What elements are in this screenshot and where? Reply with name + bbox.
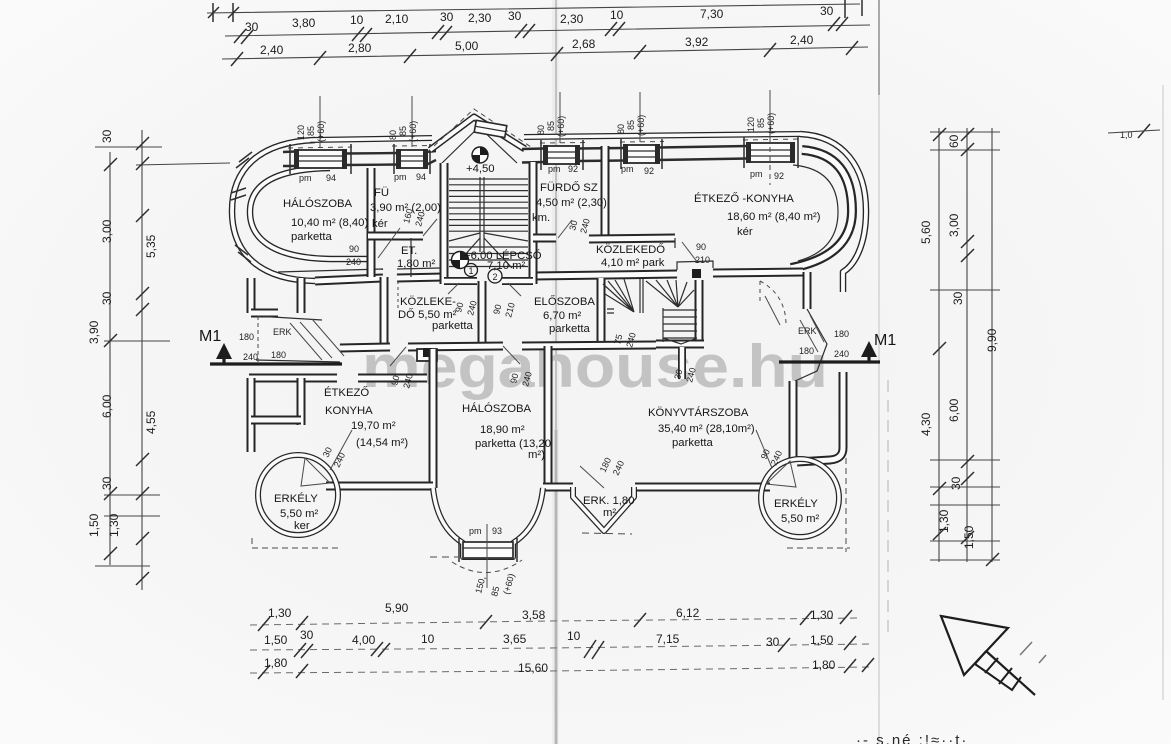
svg-text:30: 30: [949, 476, 963, 490]
svg-text:18,90 m²: 18,90 m²: [480, 424, 525, 436]
top wall outer face left: [310, 138, 432, 140]
stair right wall: [695, 280, 704, 348]
window W5 pm92: [748, 143, 794, 162]
svg-text:30: 30: [440, 10, 454, 24]
svg-text:+4,50: +4,50: [466, 163, 495, 175]
right fold line: [878, 0, 880, 744]
svg-text:parketta: parketta: [672, 437, 714, 449]
svg-text:M1: M1: [199, 328, 221, 345]
svg-text:2,40: 2,40: [260, 43, 284, 57]
door dimension labels: [321, 207, 784, 597]
svg-text:KÖZLEKE-: KÖZLEKE-: [400, 296, 456, 308]
svg-text:180: 180: [271, 350, 286, 360]
bottom edge cut text: [856, 732, 968, 744]
ET left thin wall: [410, 238, 412, 277]
svg-text:ELŐSZOBA: ELŐSZOBA: [534, 294, 595, 308]
partition below stairs: [678, 347, 686, 379]
svg-text:94: 94: [326, 173, 336, 183]
corridor 5,50 left wall: [380, 277, 389, 348]
svg-text:KONYHA: KONYHA: [325, 405, 373, 417]
svg-text:DŐ 5,50 m²: DŐ 5,50 m²: [398, 307, 457, 321]
stair divider: [639, 279, 641, 313]
svg-text:120: 120: [746, 117, 756, 132]
svg-text:1,30: 1,30: [107, 513, 121, 537]
svg-text:35,40 m² (28,10m²): 35,40 m² (28,10m²): [658, 423, 755, 435]
svg-text:10,40 m² (8,40): 10,40 m² (8,40): [291, 217, 368, 229]
bay roof dashed: [434, 109, 531, 147]
svg-text:3,58: 3,58: [522, 608, 546, 622]
svg-text:80: 80: [536, 125, 546, 135]
stair door notch: [607, 309, 614, 313]
ERK pentagon: [573, 487, 634, 531]
svg-text:10: 10: [421, 632, 435, 646]
svg-text:85: 85: [756, 118, 766, 128]
svg-text:18,60 m² (8,40 m²): 18,60 m² (8,40 m²): [727, 211, 821, 223]
M1 section line right: [779, 360, 880, 363]
svg-text:KÖNYVTÁRSZOBA: KÖNYVTÁRSZOBA: [648, 406, 749, 419]
svg-text:30: 30: [100, 129, 114, 143]
svg-text:1,50: 1,50: [810, 633, 834, 647]
chunk W4-W5: [658, 146, 748, 160]
ERK balcony right thin outline: [795, 309, 827, 381]
svg-text:pm: pm: [548, 164, 561, 174]
left room cap outer face: [232, 140, 315, 281]
top wall band left: chunk A: [283, 152, 295, 167]
svg-text:2,10: 2,10: [385, 12, 409, 26]
wall HALO/KONYVTAR lower: [544, 346, 553, 487]
svg-text:7,30: 7,30: [700, 7, 724, 21]
svg-text:4,10 m² park: 4,10 m² park: [601, 257, 665, 269]
bay apex window: [474, 120, 507, 137]
svg-text:92: 92: [774, 171, 784, 181]
svg-text:80: 80: [388, 130, 398, 140]
center bottom bay: [433, 488, 543, 557]
svg-text:240: 240: [243, 352, 258, 362]
svg-text:180: 180: [834, 329, 849, 339]
lower stair winder rays left: [603, 279, 634, 312]
svg-text:5,60: 5,60: [919, 220, 933, 244]
svg-text:ÉTKEZŐ: ÉTKEZŐ: [324, 385, 369, 399]
svg-text:1,50: 1,50: [962, 525, 976, 549]
svg-text:2,68: 2,68: [572, 37, 596, 51]
svg-text:2: 2: [493, 272, 498, 282]
svg-text:19,70 m²: 19,70 m²: [351, 420, 396, 432]
shaft bottom walls: [444, 277, 477, 285]
svg-text:3,92: 3,92: [685, 35, 709, 49]
svg-text:85: 85: [546, 121, 556, 131]
svg-text:2,80: 2,80: [348, 41, 372, 55]
top dim line A: [207, 4, 860, 13]
svg-text:ÉTKEZŐ -KONYHA: ÉTKEZŐ -KONYHA: [694, 191, 794, 205]
svg-text:ERK. 1,80: ERK. 1,80: [583, 495, 635, 507]
stair shaft walls: [440, 163, 449, 284]
svg-text:1,80 m²: 1,80 m²: [397, 258, 436, 270]
door leaves upper band: [378, 219, 698, 296]
svg-text:180: 180: [799, 346, 814, 356]
window W3 pm92: [545, 146, 578, 164]
svg-text:5,50 m²: 5,50 m²: [280, 508, 319, 520]
svg-text:parketta: parketta: [549, 323, 591, 335]
flue square corridor: [692, 269, 701, 278]
svg-text:3,80: 3,80: [292, 16, 316, 30]
stair bay inner face: [441, 127, 517, 164]
svg-text:(+60): (+60): [636, 115, 646, 136]
svg-text:6,70 m²: 6,70 m²: [543, 310, 582, 322]
ETKEZO KONYHA top wall: [249, 374, 337, 383]
svg-text:pm: pm: [750, 169, 763, 179]
svg-text:15,60: 15,60: [518, 661, 548, 675]
chunk C before bay: [426, 151, 436, 165]
FU bottom wall: [368, 232, 423, 241]
svg-text:93: 93: [492, 526, 502, 536]
svg-text:m²): m²): [528, 449, 545, 461]
svg-text:9,90: 9,90: [985, 328, 999, 352]
svg-text:92: 92: [644, 166, 654, 176]
svg-text:ERKÉLY: ERKÉLY: [774, 497, 818, 510]
svg-text:pm: pm: [469, 526, 482, 536]
top dim line C: [222, 47, 868, 59]
M1 and ERK labels: [199, 326, 896, 362]
right flight treads: [663, 310, 697, 338]
wall between corridor and ELOSZOBA: [478, 281, 487, 345]
svg-text:30: 30: [100, 476, 114, 490]
window W2 pm94: [398, 150, 426, 168]
svg-text:1: 1: [469, 266, 474, 276]
KONYVTAR right walls: [789, 381, 798, 462]
svg-text:90: 90: [349, 244, 359, 254]
top dim line B: [225, 25, 870, 36]
svg-text:7,15: 7,15: [656, 632, 680, 646]
svg-text:85: 85: [626, 120, 636, 130]
svg-text:210: 210: [695, 255, 710, 265]
svg-text:(14,54 m²): (14,54 m²): [356, 437, 408, 449]
pm window labels: [299, 164, 784, 536]
svg-text:(+60): (+60): [766, 113, 776, 134]
svg-text:kér: kér: [372, 218, 388, 230]
svg-text:ERK: ERK: [273, 327, 292, 337]
svg-text:1,50: 1,50: [264, 633, 288, 647]
svg-text:94: 94: [416, 172, 426, 182]
svg-text:240: 240: [346, 257, 361, 267]
svg-text:5,50 m²: 5,50 m²: [781, 513, 820, 525]
svg-text:ERKÉLY: ERKÉLY: [274, 492, 318, 505]
circled 1: [465, 264, 478, 277]
left room cap inner face: [250, 168, 371, 259]
svg-text:60: 60: [947, 134, 961, 148]
svg-text:1,80: 1,80: [812, 658, 836, 672]
bay window pm93: [463, 542, 513, 558]
svg-text:km.: km.: [532, 212, 550, 224]
svg-text:85: 85: [306, 126, 316, 136]
svg-text:pm: pm: [621, 164, 634, 174]
svg-text:4,00: 4,00: [352, 633, 376, 647]
svg-text:2,30: 2,30: [560, 12, 584, 26]
right cap wall band: [791, 150, 852, 268]
svg-text:ker: ker: [294, 520, 310, 532]
ELOSZOBA right / stair left wall: [597, 278, 606, 347]
svg-text:HÁLÓSZOBA: HÁLÓSZOBA: [462, 402, 532, 415]
svg-text:(+60): (+60): [408, 121, 418, 142]
left outer walls lower: [247, 378, 256, 452]
svg-text:3,90: 3,90: [87, 320, 101, 344]
svg-text:240: 240: [834, 349, 849, 359]
window dimension leaders above top wall: [320, 90, 770, 147]
FURDO bottom wall / corridor top: [533, 234, 556, 243]
center fold line: [552, 0, 559, 744]
svg-text:ERK: ERK: [798, 326, 817, 336]
page right edge: [1162, 85, 1164, 700]
svg-text:m²: m²: [603, 507, 616, 519]
door leaves middle band: [390, 281, 520, 366]
svg-text:1,30: 1,30: [810, 608, 834, 622]
svg-text:3,00: 3,00: [100, 219, 114, 243]
svg-text:2,30: 2,30: [468, 11, 492, 25]
svg-text:4,30: 4,30: [919, 412, 933, 436]
svg-text:ET.: ET.: [401, 245, 417, 257]
svg-text:5,35: 5,35: [144, 234, 158, 258]
door gap dashes right of stairs: [760, 281, 786, 325]
balcony circle left: [258, 455, 338, 535]
bottom wall left part: [326, 482, 433, 491]
band chunk 524-545: [522, 149, 545, 163]
svg-text:FÜRDŐ SZ: FÜRDŐ SZ: [540, 180, 598, 194]
svg-text:92: 92: [568, 164, 578, 174]
pilaster below wall: [417, 349, 437, 361]
svg-text:6,00: 6,00: [100, 394, 114, 418]
svg-text:10: 10: [610, 8, 624, 22]
svg-text:7,10 m²: 7,10 m²: [487, 260, 526, 272]
cap hatch ticks: [231, 152, 252, 262]
svg-text:10: 10: [567, 629, 581, 643]
svg-text:2,40: 2,40: [790, 33, 814, 47]
svg-text:kér: kér: [737, 226, 753, 238]
ERK balcony left thin outline: [256, 316, 340, 362]
svg-text:3,00: 3,00: [947, 213, 961, 237]
right cap outer face: [800, 134, 866, 292]
stair bay pentagon outer: [430, 117, 525, 150]
svg-text:80: 80: [616, 124, 626, 134]
survey symbol lower +6,00: [452, 252, 469, 269]
bottom wall bay-pentagon: [543, 483, 573, 492]
window W4 pm92: [625, 145, 658, 163]
svg-text:5,90: 5,90: [385, 601, 409, 615]
svg-text:HÁLÓSZOBA: HÁLÓSZOBA: [283, 197, 353, 210]
chunk W3-W4: [578, 148, 625, 161]
svg-text:10: 10: [350, 13, 364, 27]
svg-text:30: 30: [300, 628, 314, 642]
svg-text:30: 30: [766, 635, 780, 649]
svg-text:5,00: 5,00: [455, 39, 479, 53]
right stub wall: [803, 272, 812, 309]
svg-text:6,12: 6,12: [676, 606, 700, 620]
right cap inner face: [793, 165, 838, 261]
svg-text:FÜ: FÜ: [374, 187, 389, 199]
svg-text:(+60): (+60): [316, 121, 326, 142]
svg-text:pm: pm: [394, 172, 407, 182]
svg-text:1,30: 1,30: [268, 606, 292, 620]
svg-text:30: 30: [820, 4, 834, 18]
svg-text:pm: pm: [299, 173, 312, 183]
svg-text:(+60): (+60): [556, 116, 566, 137]
svg-text:·- s.né :!≈··t·: ·- s.né :!≈··t·: [856, 732, 968, 744]
svg-text:3,65: 3,65: [503, 632, 527, 646]
survey symbol upper +4,50: [472, 147, 488, 163]
flue square: [423, 348, 432, 357]
svg-text:6,00: 6,00: [947, 398, 961, 422]
circled 2: [488, 269, 502, 283]
fan rays right: [646, 280, 694, 307]
FURDO right wall: [601, 146, 610, 238]
svg-text:180: 180: [239, 332, 254, 342]
balcony circle right: [761, 459, 839, 537]
svg-text:4,55: 4,55: [144, 410, 158, 434]
svg-text:30: 30: [100, 291, 114, 305]
svg-text:30: 30: [951, 291, 965, 305]
wall between HALOSZOBA and FU: [367, 168, 376, 277]
window W1 pm94: [295, 150, 346, 168]
svg-text:120: 120: [296, 125, 306, 140]
left wall stubs: [247, 278, 256, 313]
svg-text:4,50 m² (2,30): 4,50 m² (2,30): [536, 197, 607, 209]
svg-text:85: 85: [398, 126, 408, 136]
M1 section line left: [210, 362, 342, 365]
bottom wall of upper band: [315, 278, 383, 281]
svg-text:90: 90: [696, 242, 706, 252]
wall ETKEZO/HALO lower: [429, 349, 438, 488]
svg-text:parketta: parketta: [432, 320, 474, 332]
wall chunk between W1 W2: [346, 152, 398, 155]
middle band bottom wall segments: [340, 347, 390, 348]
svg-text:M1: M1: [874, 332, 896, 349]
svg-text:1,50: 1,50: [87, 513, 101, 537]
svg-text:parketta: parketta: [291, 231, 333, 243]
stairs upper treads: [449, 179, 528, 231]
svg-text:KÖZLEKEDŐ: KÖZLEKEDŐ: [596, 242, 665, 256]
top wall outer face right: [524, 134, 800, 137]
svg-text:30: 30: [508, 9, 522, 23]
